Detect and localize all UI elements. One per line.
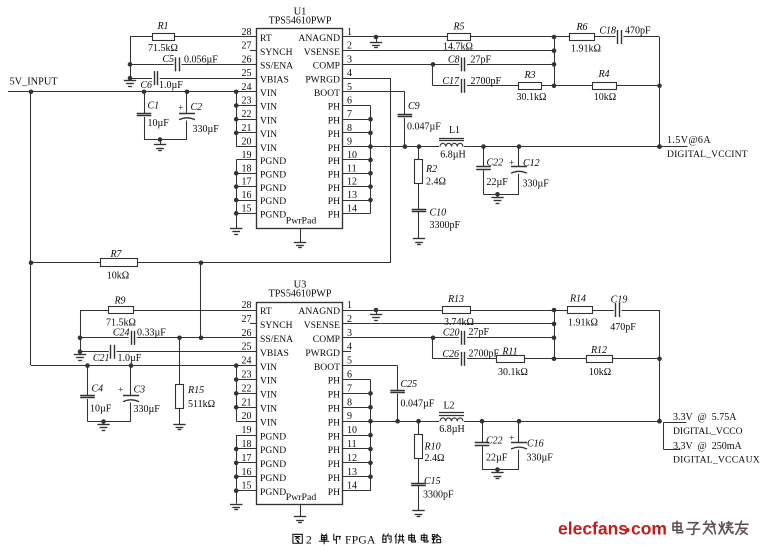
svg-text:10: 10 — [347, 425, 357, 436]
svg-text:11: 11 — [347, 163, 357, 174]
svg-text:C25: C25 — [401, 379, 418, 390]
svg-text:0.047µF: 0.047µF — [401, 399, 435, 410]
svg-text:PGND: PGND — [260, 487, 286, 498]
svg-text:14: 14 — [347, 203, 357, 214]
svg-text:C12: C12 — [523, 158, 540, 169]
svg-text:30.1kΩ: 30.1kΩ — [498, 367, 528, 378]
svg-text:470pF: 470pF — [610, 322, 636, 333]
svg-text:1.5V@6A: 1.5V@6A — [667, 135, 711, 146]
svg-text:1.91kΩ: 1.91kΩ — [571, 44, 601, 55]
svg-text:+: + — [118, 384, 123, 394]
svg-text:VIN: VIN — [260, 88, 277, 99]
svg-text:VIN: VIN — [260, 129, 277, 140]
svg-text:C17: C17 — [442, 76, 460, 87]
svg-text:3300pF: 3300pF — [423, 490, 454, 501]
svg-text:5: 5 — [347, 356, 352, 367]
svg-text:0.33µF: 0.33µF — [137, 328, 166, 339]
svg-text:C16: C16 — [527, 439, 544, 450]
svg-text:PH: PH — [328, 431, 340, 442]
svg-text:R6: R6 — [575, 22, 587, 33]
svg-text:23: 23 — [242, 96, 252, 107]
svg-text:BOOT: BOOT — [314, 88, 340, 99]
svg-text:ANAGND: ANAGND — [298, 33, 340, 44]
svg-text:C5: C5 — [162, 54, 174, 65]
svg-text:COMP: COMP — [313, 61, 340, 72]
svg-text:PH: PH — [328, 170, 340, 181]
svg-text:DIGITAL_VCCO: DIGITAL_VCCO — [673, 426, 743, 437]
svg-text:BOOT: BOOT — [314, 362, 340, 373]
svg-text:PH: PH — [328, 196, 340, 207]
svg-text:PH: PH — [328, 445, 340, 456]
svg-text:VBIAS: VBIAS — [260, 74, 289, 85]
svg-text:RT: RT — [260, 306, 272, 317]
svg-text:3: 3 — [347, 54, 352, 65]
svg-text:C22: C22 — [486, 436, 503, 447]
svg-text:27pF: 27pF — [469, 327, 490, 338]
svg-text:C26: C26 — [442, 349, 459, 360]
svg-text:0.056µF: 0.056µF — [184, 55, 218, 66]
svg-text:PGND: PGND — [260, 445, 286, 456]
svg-text:C4: C4 — [92, 384, 104, 395]
svg-text:R1: R1 — [156, 21, 168, 32]
svg-text:C24: C24 — [113, 328, 130, 339]
svg-text:PH: PH — [328, 473, 340, 484]
svg-text:C21: C21 — [93, 353, 110, 364]
svg-text:PGND: PGND — [260, 196, 286, 207]
svg-text:PH: PH — [328, 459, 340, 470]
svg-text:23: 23 — [242, 370, 252, 381]
svg-text:15: 15 — [242, 203, 252, 214]
svg-text:DIGITAL_VCCAUX: DIGITAL_VCCAUX — [673, 455, 760, 466]
svg-text:22: 22 — [242, 383, 252, 394]
svg-text:10kΩ: 10kΩ — [107, 271, 129, 282]
svg-text:ANAGND: ANAGND — [298, 306, 340, 317]
svg-text:2: 2 — [306, 535, 312, 547]
svg-text:R14: R14 — [569, 294, 586, 305]
svg-text:SYNCH: SYNCH — [260, 320, 293, 331]
svg-text:C20: C20 — [443, 328, 460, 339]
svg-text:2.4Ω: 2.4Ω — [426, 177, 446, 188]
svg-text:2700pF: 2700pF — [469, 349, 500, 360]
svg-text:PH: PH — [328, 102, 340, 113]
svg-text:R4: R4 — [597, 69, 609, 80]
svg-text:30.1kΩ: 30.1kΩ — [517, 92, 547, 103]
svg-text:R12: R12 — [590, 345, 607, 356]
svg-text:VIN: VIN — [260, 376, 277, 387]
svg-text:16: 16 — [242, 190, 252, 201]
svg-text:3.3V @ 250mA: 3.3V @ 250mA — [673, 441, 743, 452]
svg-text:5V_INPUT: 5V_INPUT — [10, 77, 59, 88]
svg-text:R9: R9 — [113, 296, 125, 307]
svg-text:6: 6 — [347, 96, 352, 107]
svg-text:PH: PH — [328, 143, 340, 154]
svg-text:9: 9 — [347, 137, 352, 148]
svg-text:71.5kΩ: 71.5kΩ — [148, 43, 178, 54]
svg-text:COMP: COMP — [313, 334, 340, 345]
svg-text:RT: RT — [260, 33, 272, 44]
svg-text:470pF: 470pF — [625, 26, 651, 37]
svg-text:PGND: PGND — [260, 183, 286, 194]
svg-text:PH: PH — [328, 487, 340, 498]
svg-text:C3: C3 — [134, 385, 146, 396]
svg-text:PH: PH — [328, 376, 340, 387]
svg-text:10µF: 10µF — [90, 404, 112, 415]
svg-text:10kΩ: 10kΩ — [594, 92, 616, 103]
svg-text:+: + — [509, 433, 514, 443]
svg-text:1.0µF: 1.0µF — [159, 80, 183, 91]
svg-text:22: 22 — [242, 109, 252, 120]
svg-text:330µF: 330µF — [527, 453, 554, 464]
svg-text:9: 9 — [347, 411, 352, 422]
svg-text:SYNCH: SYNCH — [260, 47, 293, 58]
svg-text:L1: L1 — [449, 125, 460, 136]
svg-text:PWRGD: PWRGD — [305, 348, 340, 359]
svg-text:VIN: VIN — [260, 102, 277, 113]
svg-text:PGND: PGND — [260, 431, 286, 442]
svg-text:6.8µH: 6.8µH — [440, 150, 465, 161]
svg-text:18: 18 — [242, 163, 252, 174]
svg-text:R15: R15 — [187, 385, 204, 396]
svg-text:TPS54610PWP: TPS54610PWP — [269, 289, 332, 300]
svg-text:R2: R2 — [425, 164, 437, 175]
svg-text:C19: C19 — [611, 295, 628, 306]
svg-text:6.8µH: 6.8µH — [439, 424, 464, 435]
svg-text:3.3V @ 5.75A: 3.3V @ 5.75A — [673, 412, 737, 423]
svg-text:C18: C18 — [599, 26, 616, 37]
svg-text:VIN: VIN — [260, 417, 277, 428]
svg-text:PGND: PGND — [260, 210, 286, 221]
svg-text:SS/ENA: SS/ENA — [260, 334, 293, 345]
svg-text:PwrPad: PwrPad — [286, 216, 317, 227]
svg-text:PGND: PGND — [260, 156, 286, 167]
svg-text:VIN: VIN — [260, 143, 277, 154]
svg-text:PH: PH — [328, 156, 340, 167]
svg-text:20: 20 — [242, 137, 252, 148]
svg-text:0.047µF: 0.047µF — [407, 122, 441, 133]
svg-text:R13: R13 — [447, 294, 464, 305]
svg-text:DIGITAL_VCCINT: DIGITAL_VCCINT — [667, 149, 748, 160]
svg-text:PH: PH — [328, 183, 340, 194]
svg-text:C2: C2 — [191, 102, 203, 113]
svg-text:27pF: 27pF — [471, 55, 492, 66]
svg-text:PH: PH — [328, 390, 340, 401]
svg-text:10kΩ: 10kΩ — [589, 367, 611, 378]
svg-text:PH: PH — [328, 129, 340, 140]
svg-text:3300pF: 3300pF — [430, 220, 461, 231]
svg-text:22µF: 22µF — [487, 177, 509, 188]
svg-text:VBIAS: VBIAS — [260, 348, 289, 359]
svg-text:R10: R10 — [424, 442, 441, 453]
svg-text:C15: C15 — [424, 476, 441, 487]
svg-text:26: 26 — [242, 54, 252, 65]
svg-text:C10: C10 — [430, 208, 447, 219]
svg-text:1.0µF: 1.0µF — [118, 353, 142, 364]
svg-text:330µF: 330µF — [193, 124, 220, 135]
svg-text:C9: C9 — [408, 101, 420, 112]
svg-text:VIN: VIN — [260, 362, 277, 373]
svg-text:330µF: 330µF — [134, 404, 161, 415]
svg-text:SS/ENA: SS/ENA — [260, 61, 293, 72]
svg-text:24: 24 — [242, 356, 252, 367]
svg-text:2.4Ω: 2.4Ω — [425, 453, 445, 464]
svg-text:330µF: 330µF — [523, 179, 550, 190]
svg-text:VSENSE: VSENSE — [304, 320, 340, 331]
svg-text:2700pF: 2700pF — [471, 76, 502, 87]
svg-text:VSENSE: VSENSE — [304, 47, 340, 58]
svg-text:19: 19 — [242, 425, 252, 436]
svg-text:7: 7 — [347, 109, 352, 120]
svg-text:VIN: VIN — [260, 404, 277, 415]
svg-text:R7: R7 — [109, 249, 122, 260]
svg-text:PGND: PGND — [260, 170, 286, 181]
svg-text:1.91kΩ: 1.91kΩ — [568, 318, 598, 329]
svg-text:PWRGD: PWRGD — [305, 74, 340, 85]
svg-text:10µF: 10µF — [148, 118, 170, 129]
svg-text:511kΩ: 511kΩ — [188, 399, 215, 410]
svg-text:com: com — [631, 519, 667, 539]
svg-text:R11: R11 — [501, 346, 517, 357]
svg-text:22µF: 22µF — [486, 453, 508, 464]
svg-text:C1: C1 — [148, 101, 160, 112]
svg-text:PH: PH — [328, 404, 340, 415]
svg-text:PH: PH — [328, 115, 340, 126]
svg-text:4: 4 — [347, 68, 352, 79]
svg-text:C22: C22 — [487, 158, 504, 169]
svg-text:28: 28 — [242, 300, 252, 311]
svg-text:21: 21 — [242, 397, 252, 408]
svg-text:8: 8 — [347, 397, 352, 408]
svg-text:25: 25 — [242, 68, 252, 79]
svg-text:20: 20 — [242, 411, 252, 422]
svg-text:7: 7 — [347, 383, 352, 394]
svg-text:13: 13 — [347, 190, 357, 201]
svg-text:TPS54610PWP: TPS54610PWP — [269, 16, 332, 27]
svg-text:6: 6 — [347, 370, 352, 381]
svg-text:PGND: PGND — [260, 473, 286, 484]
svg-text:C8: C8 — [448, 55, 460, 66]
svg-text:+: + — [509, 157, 514, 167]
svg-text:PGND: PGND — [260, 459, 286, 470]
svg-text:VIN: VIN — [260, 115, 277, 126]
svg-text:PwrPad: PwrPad — [286, 492, 317, 503]
svg-text:PH: PH — [328, 210, 340, 221]
svg-text:+: + — [178, 102, 183, 112]
svg-text:C6: C6 — [140, 80, 152, 91]
svg-text:L2: L2 — [443, 401, 454, 412]
svg-text:PH: PH — [328, 417, 340, 428]
svg-text:VIN: VIN — [260, 390, 277, 401]
svg-text:elecfans: elecfans — [558, 519, 628, 539]
svg-text:R5: R5 — [452, 22, 464, 33]
svg-text:R3: R3 — [523, 70, 535, 81]
svg-text:1: 1 — [347, 300, 352, 311]
svg-text:FPGA: FPGA — [345, 535, 376, 547]
